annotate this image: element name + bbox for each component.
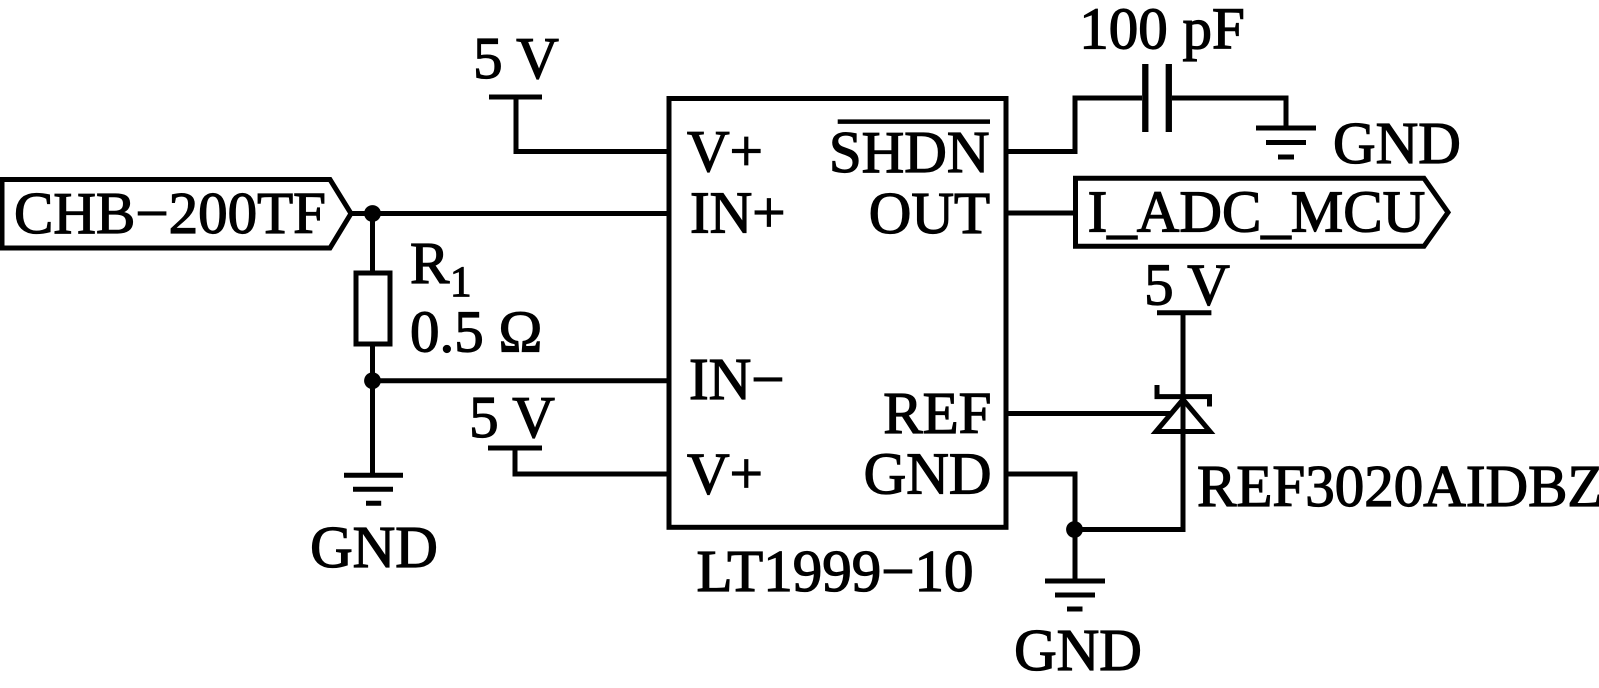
svg-text:REF3020AIDBZ: REF3020AIDBZ <box>1197 453 1599 519</box>
port CHB-200TF <box>2 180 351 249</box>
svg-text:I_ADC_MCU: I_ADC_MCU <box>1088 178 1426 244</box>
svg-text:GND: GND <box>1333 110 1461 176</box>
svg-text:V+: V+ <box>687 118 763 184</box>
svg-text:GND: GND <box>864 441 992 507</box>
svg-text:GND: GND <box>310 514 438 580</box>
op-amp U1 LT1999-10 box <box>669 99 1006 528</box>
node junction B (IN-) <box>364 372 381 389</box>
svg-text:V+: V+ <box>687 441 763 507</box>
svg-text:REF: REF <box>883 380 991 446</box>
svg-text:SHDN: SHDN <box>829 119 990 185</box>
port I_ADC_MCU <box>1076 178 1449 246</box>
wire node B to IN- <box>373 378 670 383</box>
svg-text:R: R <box>410 230 450 296</box>
wire SHDN to capacitor <box>1006 98 1142 152</box>
zener diode D1 cathode bar <box>1155 385 1213 407</box>
wire REF to diode <box>1006 411 1184 416</box>
SHDN overline <box>838 119 990 124</box>
capacitor C1 plates <box>1145 64 1169 132</box>
wire resistor to ground <box>370 344 375 475</box>
svg-text:5 V: 5 V <box>1144 252 1230 318</box>
resistor R1 <box>356 273 390 344</box>
ground (capacitor) <box>1256 128 1316 157</box>
svg-text:LT1999−10: LT1999−10 <box>697 538 974 604</box>
svg-text:IN−: IN− <box>689 346 785 412</box>
power symbol 5V (top left) <box>489 97 669 152</box>
svg-text:0.5 Ω: 0.5 Ω <box>410 299 542 365</box>
svg-text:GND: GND <box>1014 617 1142 683</box>
power symbol 5V (right) <box>1157 313 1211 397</box>
node junction A (IN+) <box>364 205 381 222</box>
wire node A down to resistor <box>370 214 375 274</box>
power symbol 5V (mid left) <box>488 448 669 474</box>
wire diode to node C <box>1075 397 1183 530</box>
svg-text:100 pF: 100 pF <box>1079 0 1245 62</box>
wire GND pin to node C <box>1006 474 1075 581</box>
wire OUT to port <box>1006 211 1077 216</box>
svg-text:CHB−200TF: CHB−200TF <box>14 180 326 246</box>
wire capacitor to ground <box>1172 98 1286 128</box>
svg-text:IN+: IN+ <box>690 180 786 246</box>
ground (bottom right) <box>1045 581 1105 609</box>
svg-text:OUT: OUT <box>869 180 990 246</box>
ground (bottom left) <box>344 475 403 503</box>
label R1 <box>410 230 472 306</box>
svg-text:5 V: 5 V <box>473 25 559 91</box>
svg-text:5 V: 5 V <box>469 384 555 450</box>
wire tip to IN+ node <box>351 211 669 216</box>
zener diode D1 triangle <box>1156 400 1210 432</box>
node junction C <box>1066 521 1083 538</box>
